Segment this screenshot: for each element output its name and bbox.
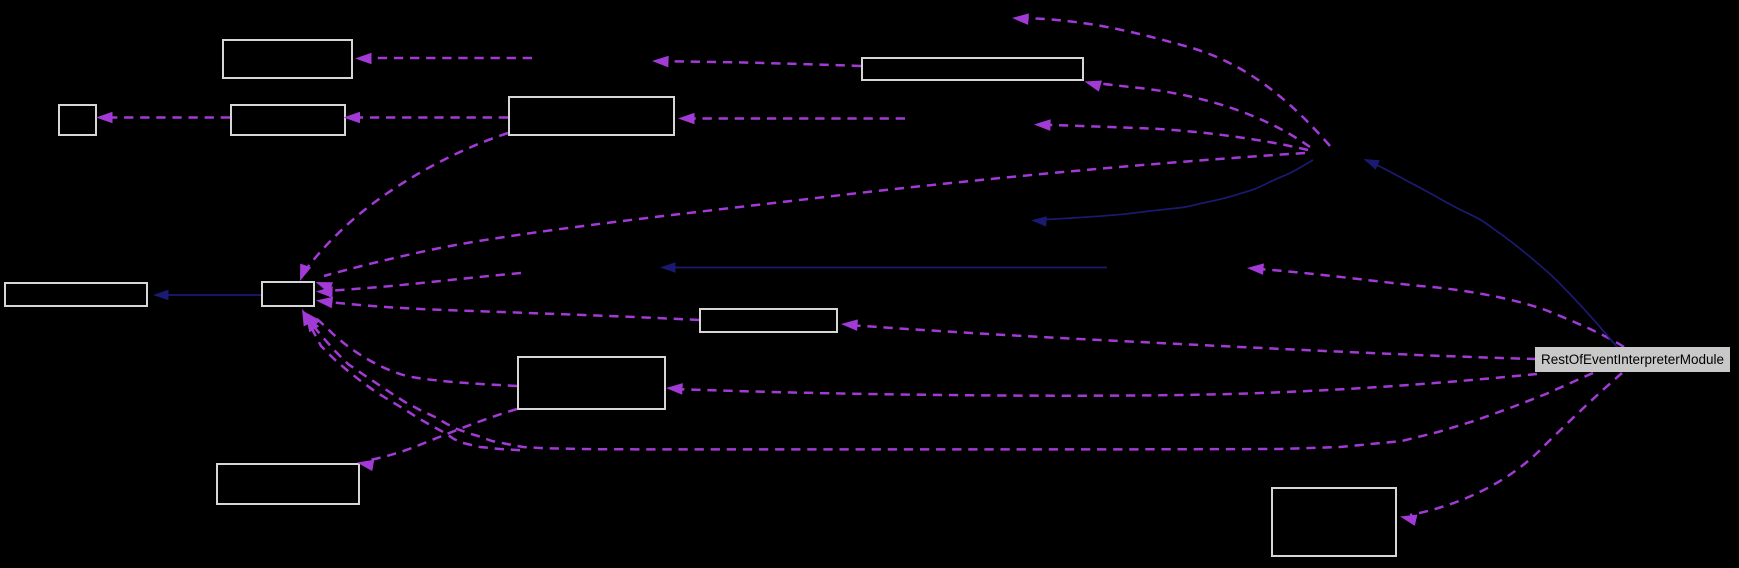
edge I->G — [305, 312, 517, 386]
box K (bottom right) — [1272, 488, 1396, 556]
box I (middle tall) — [518, 357, 665, 409]
edge hub->X3 (blue) — [1031, 160, 1313, 227]
edge RestOf->I — [666, 374, 1537, 396]
edge D->C — [344, 112, 509, 124]
edge RestOf->H — [841, 319, 1536, 359]
edge C->B2 — [96, 112, 230, 124]
box H (middle) — [700, 309, 837, 332]
box T1 (invisible-text node, top-left) — [223, 40, 352, 78]
box F (mid left wide) — [5, 283, 147, 306]
edge N1->D — [678, 113, 905, 125]
box E (top right wide) — [862, 58, 1083, 80]
box J (bottom left) — [217, 464, 359, 504]
edge H->G — [316, 297, 699, 320]
edge X6->T1 — [355, 53, 532, 65]
edge hub->E — [1085, 81, 1311, 148]
edge hub->top-node — [1012, 13, 1330, 146]
edge I->J — [357, 409, 517, 471]
box G (small hub node) — [262, 282, 314, 306]
edge RestOf->hub (blue) — [1364, 159, 1618, 347]
edge RestOf->G sweep B — [306, 315, 520, 450]
node RestOfEventInterpreterModule (current node, gray filled) — [1535, 347, 1730, 372]
edge RestOf->G sweep A — [302, 309, 1593, 449]
box C (second row) — [231, 105, 345, 135]
box B2 (small node far left) — [59, 105, 96, 135]
box D (second row large) — [509, 97, 674, 135]
edge E->X6 — [652, 56, 861, 68]
edge hub->N1 — [1034, 119, 1308, 150]
edge X1->G — [316, 273, 521, 298]
edge RestOf->K — [1400, 373, 1622, 526]
edge hub->G long — [316, 153, 1306, 293]
svg-text:RestOfEventInterpreterModule: RestOfEventInterpreterModule — [1541, 352, 1724, 367]
edge G->F (blue) — [153, 290, 261, 300]
edge RestOf->X4 — [1247, 263, 1624, 347]
edge X4->X1 (blue) — [660, 262, 1107, 272]
edge D->G steep — [300, 133, 508, 281]
